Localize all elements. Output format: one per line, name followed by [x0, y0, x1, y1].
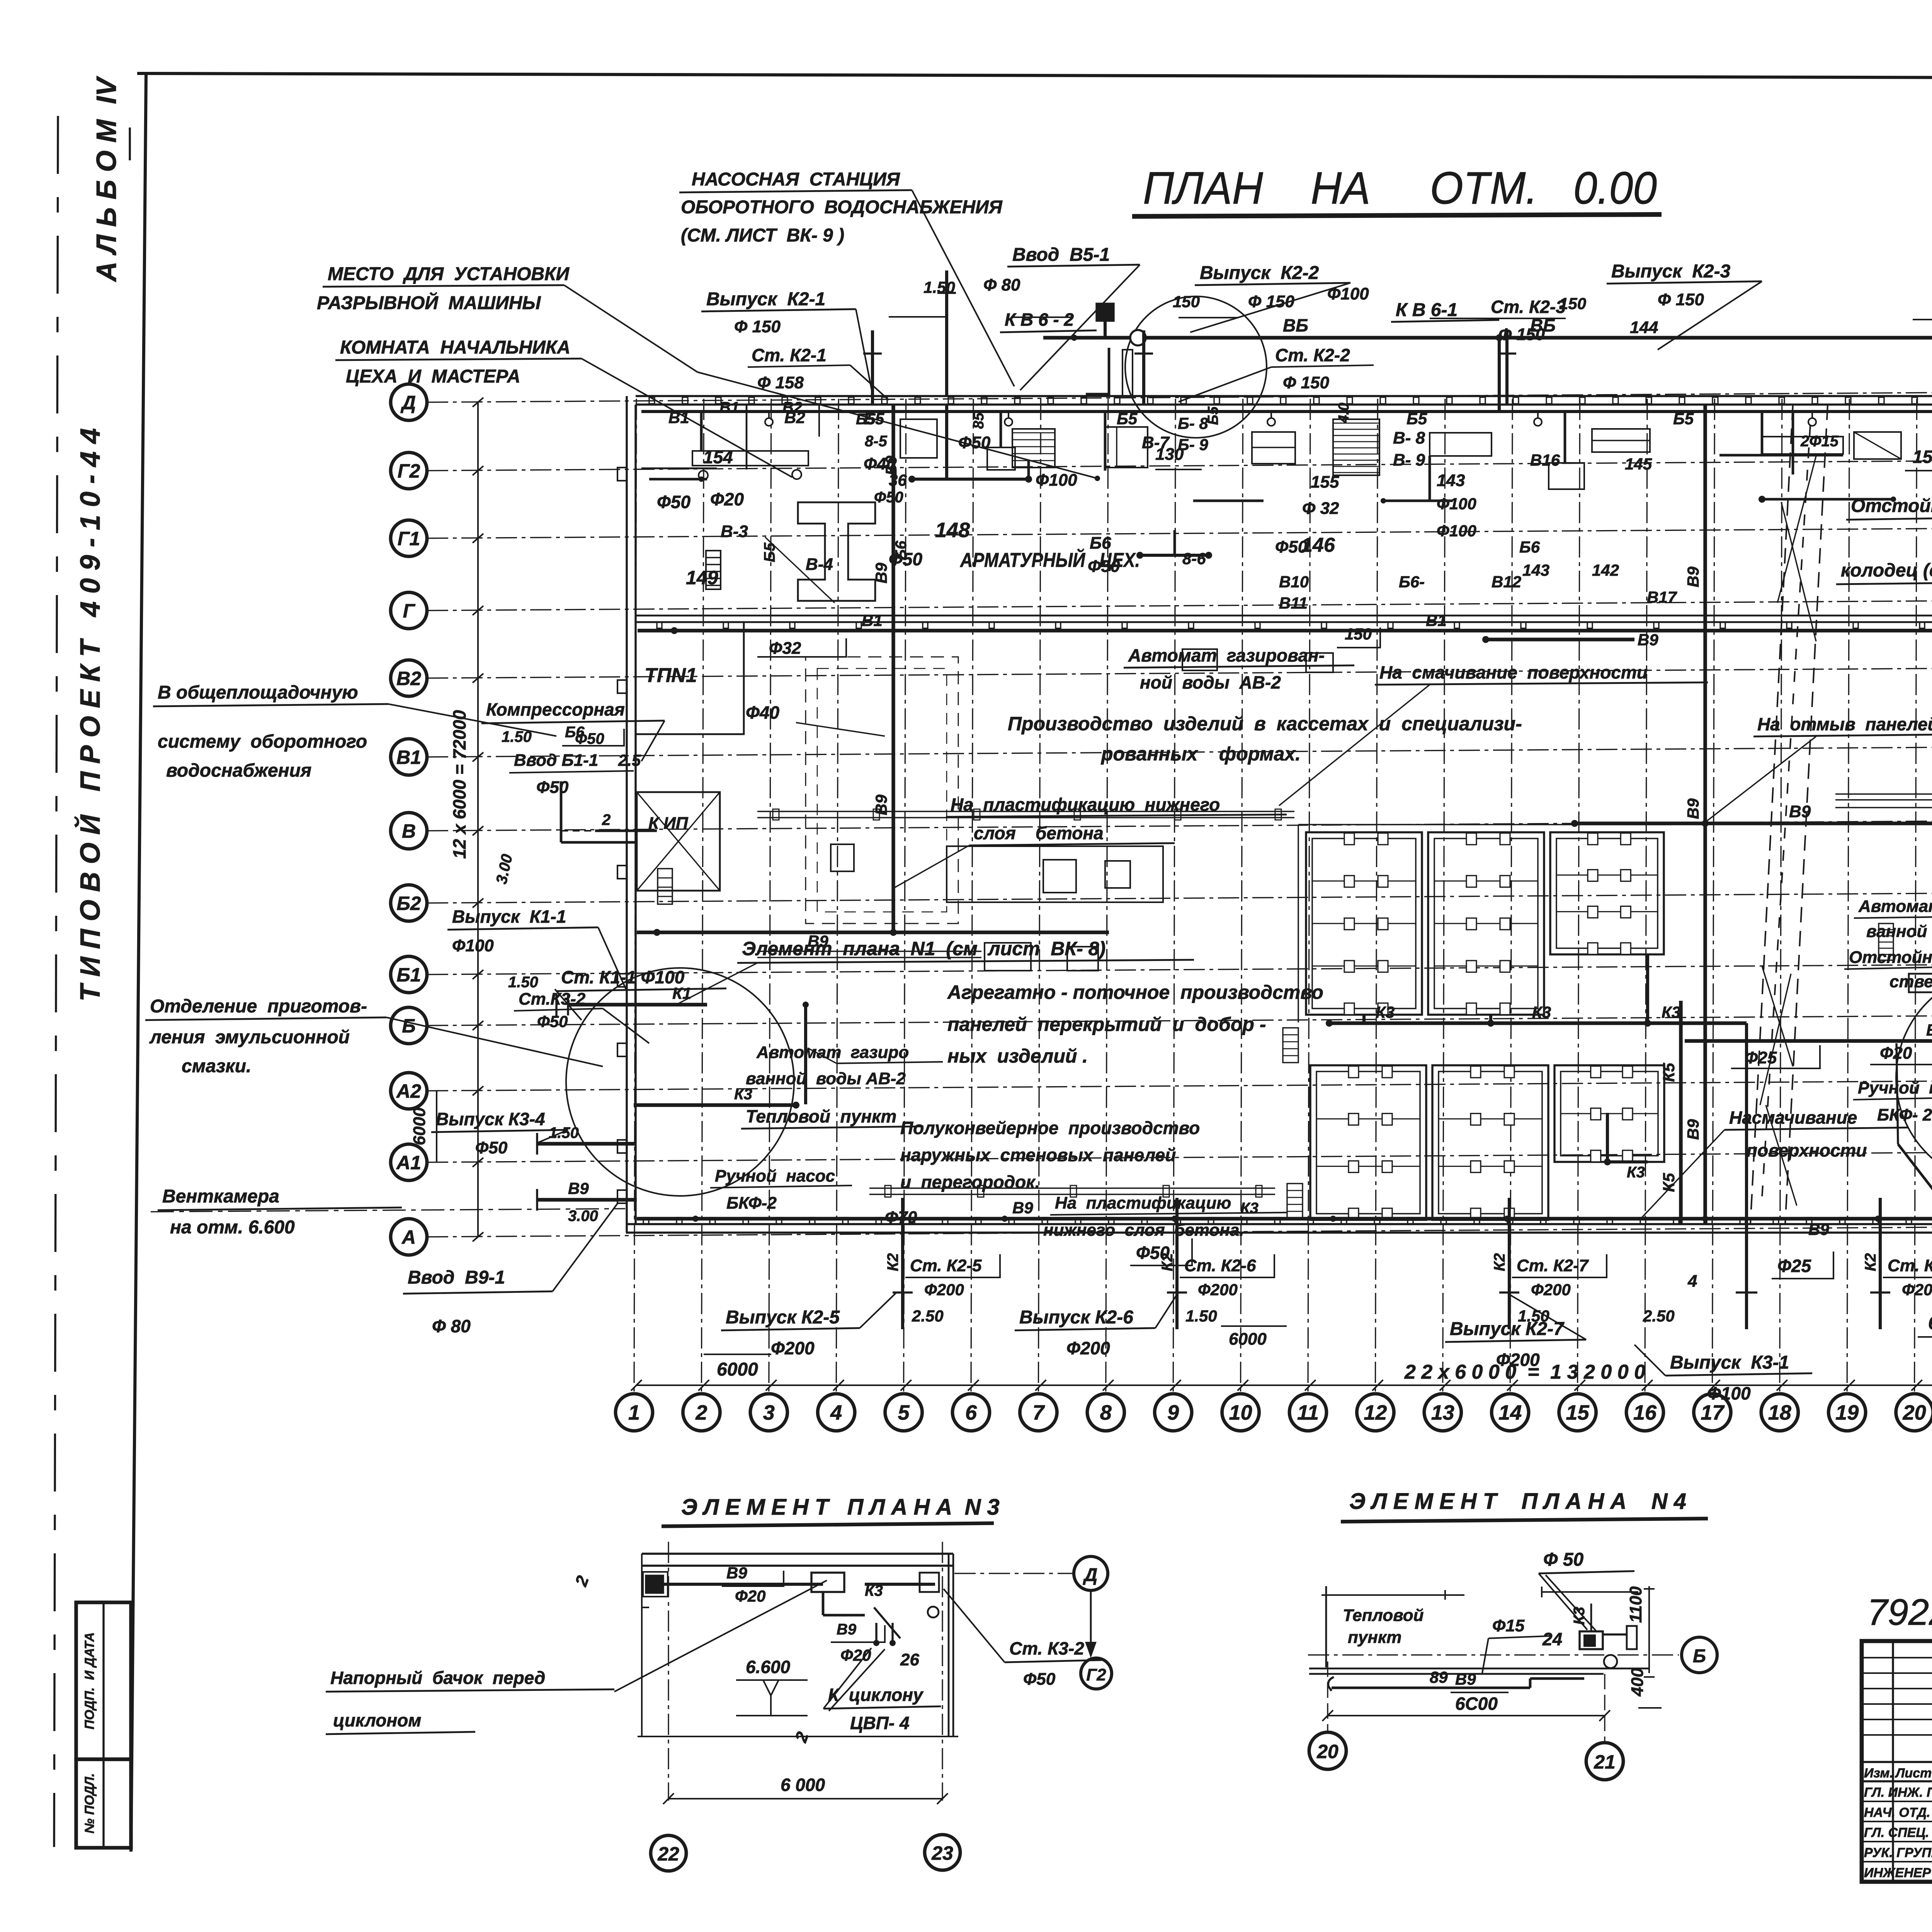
- room КИП: [637, 792, 720, 891]
- svg-text:В11: В11: [1279, 594, 1308, 612]
- svg-text:Ф 150: Ф 150: [1283, 373, 1330, 392]
- svg-text:В9: В9: [1455, 1670, 1476, 1688]
- svg-text:Б2: Б2: [396, 893, 421, 914]
- stairs right (отстойник): [1879, 923, 1893, 960]
- svg-text:8: 8: [1100, 1401, 1112, 1424]
- pipe В9 (right horizontal): [1575, 821, 1932, 825]
- column dimension line 22x6000=132000: [636, 1384, 1932, 1386]
- svg-text:нижнего слоя бетона.: нижнего слоя бетона.: [1043, 1221, 1244, 1240]
- svg-text:ных изделий .: ных изделий .: [947, 1045, 1088, 1067]
- выпуск risers at top wall: [871, 330, 874, 405]
- bracket for label 150: [1337, 628, 1380, 648]
- svg-text:К В 6-1: К В 6-1: [1396, 300, 1458, 320]
- svg-text:Б6: Б6: [1519, 538, 1540, 556]
- svg-text:Автомат газиро: Автомат газиро: [756, 1043, 909, 1062]
- cassette drain stubs: [1362, 1015, 1366, 1023]
- svg-text:Т И П О В О Й П Р О Е К Т: Т И П О В О Й П Р О Е К Т 4 0 9 - 1 0 - …: [74, 428, 106, 1002]
- pipe В9 stub near В1 line: [1486, 638, 1634, 641]
- title block verticals (left part): [1892, 1641, 1894, 1882]
- svg-text:Ф50: Ф50: [575, 730, 604, 747]
- svg-text:85: 85: [971, 412, 987, 429]
- title block top small rows: [1862, 1657, 1932, 1658]
- svg-text:Выпуск К3-4: Выпуск К3-4: [436, 1109, 545, 1129]
- svg-text:Ф 80: Ф 80: [983, 276, 1020, 294]
- svg-text:Агрегатно - поточное производ: Агрегатно - поточное производство: [947, 981, 1323, 1003]
- svg-text:На смачивание поверхности: На смачивание поверхности: [1379, 662, 1648, 682]
- detail N3 axis Д bubble: [1074, 1556, 1108, 1590]
- detail N3 bubbles 22 23: [651, 1835, 686, 1871]
- svg-text:Выпуск К1-1: Выпуск К1-1: [452, 906, 566, 927]
- svg-text:16: 16: [1633, 1401, 1657, 1424]
- svg-text:В-4: В-4: [806, 555, 833, 574]
- svg-text:6.600: 6.600: [746, 1657, 791, 1677]
- machine cluster extras top band: [1000, 412, 1002, 447]
- pipe В9/К3 along bottom wall: [637, 1217, 1932, 1220]
- detail N3 dimension 6000: [668, 1798, 942, 1799]
- pipe Б5 branch verticals in rebar shop: [945, 405, 948, 479]
- svg-text:Б6: Б6: [893, 541, 910, 560]
- svg-text:поверхности: поверхности: [1747, 1140, 1867, 1160]
- row dimension line 12x6000=72000: [477, 402, 479, 1237]
- svg-text:ВБ: ВБ: [1283, 315, 1308, 335]
- detail N4 К3 node: [1580, 1631, 1603, 1649]
- svg-text:В9: В9: [1808, 1220, 1829, 1238]
- svg-text:Ф200: Ф200: [924, 1281, 964, 1299]
- svg-text:Ф15: Ф15: [1492, 1616, 1525, 1635]
- svg-text:В12: В12: [1492, 573, 1521, 591]
- svg-text:К3: К3: [1571, 1607, 1588, 1625]
- svg-text:Ф50: Ф50: [536, 778, 569, 797]
- drawing frame left line: [131, 73, 146, 1852]
- svg-text:3: 3: [763, 1401, 775, 1424]
- office room partition top-left: [746, 405, 748, 469]
- svg-text:Г2: Г2: [398, 460, 420, 482]
- svg-text:1.50: 1.50: [549, 1124, 579, 1141]
- pipe В9 (left horizontal): [637, 930, 1109, 934]
- svg-text:и перегородок.: и перегородок.: [900, 1172, 1040, 1192]
- svg-text:6000: 6000: [1229, 1330, 1267, 1349]
- svg-text:13: 13: [1431, 1401, 1454, 1424]
- svg-text:7: 7: [1032, 1401, 1045, 1424]
- svg-text:ственных сточных вод: ственных сточных вод: [1889, 972, 1932, 991]
- svg-text:19: 19: [1835, 1401, 1859, 1424]
- svg-text:Ст. К2-7: Ст. К2-7: [1517, 1256, 1589, 1275]
- svg-text:К2: К2: [1862, 1253, 1879, 1271]
- svg-text:В1: В1: [1426, 611, 1447, 629]
- svg-text:Напорный бачок перед: Напорный бачок перед: [330, 1668, 545, 1688]
- callout circle: element plan N4 (right): [1896, 971, 1932, 1185]
- row grid dash-dot lines: [427, 391, 1932, 402]
- svg-text:ления эмульсионной: ления эмульсионной: [149, 1027, 350, 1048]
- detail N3 pipes: [646, 1576, 663, 1593]
- svg-text:Выпуск К2-2: Выпуск К2-2: [1200, 263, 1319, 283]
- pipe В9 Ф25 (right): [1685, 1039, 1932, 1043]
- svg-text:К3: К3: [1532, 1003, 1551, 1021]
- svg-text:Ф50: Ф50: [537, 1012, 568, 1031]
- room ТПН1: [636, 622, 744, 734]
- svg-text:10: 10: [1229, 1401, 1252, 1424]
- svg-text:145: 145: [1625, 455, 1652, 473]
- svg-text:Ст. К2-6: Ст. К2-6: [1184, 1256, 1256, 1275]
- svg-text:2.5: 2.5: [618, 751, 641, 769]
- svg-text:Ст. К3-2: Ст. К3-2: [1009, 1638, 1084, 1658]
- svg-text:КОМНАТА НАЧАЛЬНИКА: КОМНАТА НАЧАЛЬНИКА: [340, 337, 570, 358]
- riser К3 to выпуск К3-1: [1745, 1023, 1748, 1224]
- detail N3 axis Г2 bubble and arrow: [1090, 1590, 1092, 1656]
- svg-text:7922: 7922: [1867, 1592, 1932, 1633]
- svg-text:В16: В16: [1530, 451, 1560, 469]
- svg-text:2: 2: [602, 811, 611, 828]
- svg-text:Б1: Б1: [396, 964, 421, 986]
- svg-text:Б9: Б9: [883, 456, 900, 475]
- svg-text:Ф25: Ф25: [1745, 1048, 1777, 1067]
- svg-text:Ст.К3-2: Ст.К3-2: [519, 990, 586, 1009]
- svg-text:3.00: 3.00: [568, 1207, 598, 1225]
- svg-text:В9: В9: [726, 1564, 747, 1582]
- detail N4 тепловой пункт box: [1325, 1586, 1327, 1667]
- detail N4 pipe В9: [1328, 1677, 1334, 1691]
- svg-text:На отмыв панелей: На отмыв панелей: [1757, 714, 1932, 734]
- detail N4 axis Б line and bubble: [1308, 1654, 1679, 1655]
- svg-text:В: В: [402, 820, 416, 842]
- выпуск К3-4 stub: [537, 1142, 636, 1145]
- svg-text:Ст. К2-1: Ст. К2-1: [752, 345, 827, 365]
- svg-text:Г2: Г2: [1086, 1665, 1106, 1684]
- row bubbles: [391, 384, 427, 420]
- svg-text:ПЛАН НА ОТМ. 0.00: ПЛАН НА ОТМ. 0.00: [1143, 163, 1657, 214]
- svg-text:Ф100: Ф100: [1437, 522, 1476, 540]
- svg-text:водоснабжения: водоснабжения: [166, 760, 311, 781]
- svg-text:Ст. К1-1 Ф100: Ст. К1-1 Ф100: [561, 967, 685, 987]
- svg-text:Ф50: Ф50: [475, 1138, 508, 1157]
- svg-text:6C00: 6C00: [1455, 1694, 1498, 1714]
- title block signature rows: [1862, 1801, 1932, 1802]
- svg-text:6000: 6000: [1928, 1313, 1932, 1333]
- machine cluster extras middle band: [985, 943, 1031, 971]
- svg-text:Выпуск К2-3: Выпуск К2-3: [1611, 261, 1731, 282]
- svg-text:В1: В1: [719, 399, 739, 416]
- machine block пластификация: [947, 846, 1163, 902]
- svg-text:ванной воды АВ-2: ванной воды АВ-2: [1866, 922, 1932, 941]
- pipe Б5 under top wall: [641, 410, 1932, 413]
- svg-text:В10: В10: [1279, 573, 1309, 591]
- svg-text:4: 4: [1687, 1272, 1697, 1291]
- top wall pilasters: [649, 397, 655, 404]
- svg-text:ТПN1: ТПN1: [645, 664, 697, 687]
- svg-text:На пластификацию: На пластификацию: [1055, 1194, 1231, 1213]
- svg-text:В9: В9: [568, 1179, 589, 1197]
- sediment tank rect right: [1909, 974, 1932, 992]
- svg-text:Ф100: Ф100: [1707, 1383, 1751, 1403]
- svg-text:К3: К3: [734, 1086, 752, 1103]
- svg-text:В9: В9: [872, 794, 890, 815]
- title block outer frame: [1862, 1641, 1932, 1882]
- svg-text:Венткамера: Венткамера: [162, 1186, 279, 1207]
- detail N3 walls: [642, 1553, 953, 1554]
- svg-text:Д: Д: [400, 392, 416, 413]
- svg-text:26: 26: [900, 1650, 919, 1669]
- svg-text:БКФ-2: БКФ-2: [726, 1194, 777, 1213]
- svg-text:2.50: 2.50: [912, 1307, 944, 1325]
- svg-text:ГЛ. ИНЖ. ПР.: ГЛ. ИНЖ. ПР.: [1864, 1785, 1932, 1800]
- svg-text:А: А: [401, 1226, 416, 1248]
- svg-text:Б- 9: Б- 9: [1178, 435, 1208, 454]
- svg-text:23: 23: [931, 1842, 953, 1864]
- svg-text:11: 11: [1297, 1401, 1319, 1424]
- svg-text:пункт: пункт: [1348, 1628, 1401, 1647]
- svg-text:Ст. К2-2: Ст. К2-2: [1275, 345, 1350, 365]
- svg-text:В9: В9: [872, 563, 890, 583]
- svg-text:В общеплощадочную: В общеплощадочную: [158, 682, 358, 703]
- svg-text:РАЗРЫВНОЙ МАШИНЫ: РАЗРЫВНОЙ МАШИНЫ: [317, 292, 541, 313]
- svg-text:систему оборотного: систему оборотного: [158, 731, 367, 752]
- svg-text:Ф20: Ф20: [735, 1587, 766, 1605]
- svg-text:2.50: 2.50: [1643, 1307, 1675, 1325]
- svg-text:В9: В9: [1684, 566, 1702, 587]
- callout circle: element plan N1 (left): [566, 968, 794, 1196]
- machine: ladder symbol: [706, 551, 721, 589]
- svg-text:К В 6 - 2: К В 6 - 2: [1005, 310, 1074, 330]
- svg-text:20: 20: [1316, 1741, 1338, 1762]
- callout circle: node КВ6-2 (top middle): [1125, 296, 1267, 438]
- svg-text:Б5: Б5: [1673, 410, 1694, 428]
- riser В9 vertical (main right): [1703, 405, 1707, 1224]
- svg-text:Ф200: Ф200: [1496, 1350, 1540, 1370]
- svg-text:В9: В9: [1684, 1119, 1702, 1140]
- svg-text:К2: К2: [1491, 1253, 1508, 1271]
- svg-text:12: 12: [1364, 1401, 1387, 1424]
- svg-text:1: 1: [628, 1401, 640, 1424]
- svg-text:В2: В2: [396, 668, 421, 689]
- pipe ВБ (top horizontal): [1074, 336, 1932, 339]
- pipe Б6 segments mid rebar shop: [1140, 554, 1209, 557]
- svg-text:Элемент плана N1 (см лист: Элемент плана N1 (см лист ВК- 8): [742, 938, 1105, 959]
- svg-text:1.50: 1.50: [1518, 1307, 1549, 1325]
- svg-text:на отм. 6.600: на отм. 6.600: [170, 1217, 295, 1238]
- svg-text:Автомат газирован-: Автомат газирован-: [1128, 645, 1325, 665]
- svg-text:В9: В9: [1789, 802, 1811, 821]
- svg-text:400: 400: [1628, 1668, 1647, 1697]
- dashed zone Элемент плана N1: [806, 657, 958, 923]
- svg-text:Выпуск К3-1: Выпуск К3-1: [1670, 1352, 1789, 1373]
- ввод В9-1 stub: [537, 1198, 637, 1201]
- svg-text:ОБОРОТНОГО ВОДОСНАБЖЕНИЯ: ОБОРОТНОГО ВОДОСНАБЖЕНИЯ: [681, 197, 1003, 218]
- svg-text:Ф32: Ф32: [769, 639, 801, 658]
- svg-text:Ф200: Ф200: [1198, 1281, 1238, 1299]
- svg-text:слоя бетона: слоя бетона: [974, 823, 1104, 843]
- svg-text:2Ф15: 2Ф15: [1800, 433, 1839, 450]
- К2 risers through bottom wall: [901, 1198, 904, 1329]
- pipe К3 (cassette row): [1329, 1021, 1747, 1025]
- svg-text:150: 150: [1559, 294, 1586, 313]
- svg-text:Выпуск К2-1: Выпуск К2-1: [706, 289, 825, 310]
- svg-text:Ф 32: Ф 32: [1302, 499, 1339, 518]
- svg-text:БКФ- 2: БКФ- 2: [1877, 1105, 1932, 1124]
- cassette group lower: [1310, 1065, 1426, 1220]
- svg-text:Ввод Б1-1: Ввод Б1-1: [514, 751, 598, 770]
- bottom wall pilasters: [643, 1218, 649, 1224]
- svg-text:Ввод В9-1: Ввод В9-1: [408, 1267, 505, 1288]
- node КВ6-2: [1097, 304, 1114, 321]
- svg-text:На пластификацию нижнего: На пластификацию нижнего: [951, 794, 1220, 815]
- dimension 6000 (cols 2-3): [704, 1354, 771, 1355]
- svg-text:144: 144: [1630, 318, 1658, 337]
- svg-text:Ввод В5-1: Ввод В5-1: [1012, 245, 1110, 265]
- svg-text:Б6-: Б6-: [1399, 573, 1425, 591]
- svg-text:Ф 150: Ф 150: [734, 317, 781, 336]
- svg-text:Ф20: Ф20: [710, 489, 744, 509]
- svg-text:Ф100: Ф100: [1327, 284, 1369, 303]
- svg-text:Полуконвейерное производство: Полуконвейерное производство: [900, 1118, 1200, 1138]
- svg-text:В1: В1: [396, 747, 421, 768]
- drawing frame top line: [137, 73, 1932, 79]
- svg-text:14: 14: [1498, 1401, 1522, 1424]
- svg-text:наружных стеновых панелей: наружных стеновых панелей: [900, 1145, 1176, 1165]
- svg-text:1.50: 1.50: [923, 278, 955, 296]
- svg-text:В9: В9: [1926, 1021, 1932, 1039]
- svg-text:Б5: Б5: [1406, 410, 1427, 428]
- svg-text:ванной воды АВ-2: ванной воды АВ-2: [746, 1069, 906, 1088]
- svg-text:18: 18: [1768, 1401, 1791, 1424]
- svg-text:143: 143: [1522, 561, 1549, 579]
- svg-text:В17: В17: [1647, 588, 1677, 606]
- svg-text:ЦЕХА И МАСТЕРА: ЦЕХА И МАСТЕРА: [346, 366, 520, 387]
- svg-text:А1: А1: [396, 1152, 421, 1173]
- svg-text:89: 89: [1430, 1668, 1448, 1686]
- svg-text:9: 9: [1167, 1401, 1179, 1424]
- svg-text:Э Л Е М Е Н Т П Л А Н А: Э Л Е М Е Н Т П Л А Н А N 4: [1349, 1489, 1686, 1514]
- svg-text:Производство изделий в касс: Производство изделий в кассетах и специа…: [1008, 713, 1522, 735]
- svg-text:21: 21: [1594, 1751, 1616, 1773]
- svg-text:1100: 1100: [1626, 1586, 1645, 1623]
- svg-text:Лист: Лист: [1895, 1766, 1932, 1781]
- svg-text:22: 22: [657, 1843, 679, 1865]
- svg-text:3.00: 3.00: [493, 853, 516, 886]
- svg-text:Автомат газиро-: Автомат газиро-: [1858, 897, 1932, 916]
- svg-text:циклоном: циклоном: [333, 1710, 421, 1730]
- detail N3 axis lines: [668, 1542, 669, 1801]
- svg-text:20: 20: [1903, 1401, 1926, 1424]
- svg-text:Ф50: Ф50: [1136, 1243, 1170, 1263]
- svg-text:Ф50: Ф50: [958, 433, 991, 452]
- svg-text:Отстойник производ-: Отстойник производ-: [1849, 948, 1932, 967]
- svg-text:В9: В9: [1684, 798, 1702, 819]
- small pipe stub row В: [595, 830, 657, 832]
- svg-text:Ф50: Ф50: [874, 489, 903, 506]
- svg-text:(СМ. ЛИСТ ВК- 9 ): (СМ. ЛИСТ ВК- 9 ): [681, 225, 844, 246]
- svg-text:Б5: Б5: [1117, 410, 1138, 428]
- pipe К1 (left): [568, 1003, 707, 1006]
- svg-text:В2: В2: [782, 399, 802, 416]
- svg-text:2: 2: [695, 1401, 707, 1424]
- svg-text:Ф200: Ф200: [771, 1338, 815, 1358]
- svg-text:Ф 50: Ф 50: [1543, 1549, 1584, 1570]
- svg-text:ГЛ. СПЕЦ.: ГЛ. СПЕЦ.: [1864, 1825, 1929, 1840]
- svg-text:Ф 150: Ф 150: [1658, 290, 1704, 309]
- machine blocks top-middle: [900, 419, 937, 458]
- svg-text:Б- 8: Б- 8: [1178, 414, 1208, 432]
- svg-text:150: 150: [1173, 293, 1200, 311]
- svg-text:154: 154: [703, 447, 733, 467]
- svg-text:24: 24: [1542, 1629, 1562, 1649]
- cassette group upper: [1306, 832, 1422, 1015]
- svg-text:В-3: В-3: [721, 522, 748, 541]
- svg-text:рованных формах.: рованных формах.: [1100, 743, 1301, 765]
- svg-text:колодец (см.лист ВК-11): колодец (см.лист ВК-11): [1841, 560, 1932, 581]
- svg-text:Б5: Б5: [761, 543, 778, 562]
- svg-text:4.0: 4.0: [1336, 403, 1352, 423]
- svg-text:8-6: 8-6: [1182, 549, 1206, 568]
- conveyor rails bottom band: [869, 1187, 1275, 1189]
- svg-text:Ф100: Ф100: [1437, 495, 1476, 513]
- svg-text:Б: Б: [1693, 1646, 1706, 1667]
- svg-text:6: 6: [965, 1401, 977, 1424]
- svg-text:К циклону: К циклону: [828, 1685, 924, 1705]
- svg-text:2: 2: [571, 1573, 593, 1589]
- svg-text:17: 17: [1701, 1401, 1725, 1424]
- svg-text:6 000: 6 000: [781, 1775, 825, 1795]
- svg-text:Компрессорная: Компрессорная: [486, 699, 625, 719]
- svg-text:АРМАТУРНЫЙ ЦЕХ.: АРМАТУРНЫЙ ЦЕХ.: [959, 548, 1140, 571]
- svg-text:148: 148: [935, 519, 970, 542]
- svg-text:К3: К3: [1662, 1003, 1680, 1021]
- svg-text:панелей перекрытий и добор: панелей перекрытий и добор -: [947, 1014, 1266, 1035]
- svg-text:Ф200: Ф200: [1902, 1281, 1932, 1299]
- fold diagonals near expansion joint: [1762, 966, 1793, 1066]
- svg-text:6000: 6000: [717, 1359, 758, 1380]
- svg-text:В9: В9: [1638, 631, 1658, 649]
- svg-text:РУК. ГРУП.: РУК. ГРУП.: [1864, 1845, 1932, 1860]
- svg-text:К5: К5: [1660, 1063, 1678, 1082]
- svg-text:К3: К3: [1627, 1164, 1645, 1181]
- valve symbols on Б5 line: [765, 418, 773, 426]
- bottom-left stamp box: № ПОДЛ.: [76, 1759, 131, 1848]
- svg-text:Тепловой пункт: Тепловой пункт: [746, 1106, 896, 1126]
- svg-text:В- 9: В- 9: [1393, 451, 1425, 469]
- riser К5: [1679, 1001, 1682, 1224]
- svg-text:6000: 6000: [410, 1107, 429, 1145]
- top exterior wall: [636, 395, 1932, 397]
- svg-text:Б: Б: [402, 1015, 415, 1037]
- svg-text:А2: А2: [396, 1080, 421, 1102]
- svg-text:146: 146: [1301, 534, 1335, 556]
- svg-text:К3: К3: [1376, 1003, 1395, 1021]
- bottom exterior wall: [626, 1223, 1932, 1225]
- svg-text:Ф 80: Ф 80: [432, 1316, 471, 1336]
- svg-text:Г: Г: [403, 600, 416, 622]
- svg-text:смазки.: смазки.: [182, 1056, 251, 1077]
- svg-text:1.50: 1.50: [502, 728, 532, 745]
- svg-text:ЦВП- 4: ЦВП- 4: [850, 1713, 910, 1733]
- svg-text:Ф200: Ф200: [1066, 1338, 1110, 1358]
- svg-text:5: 5: [898, 1401, 910, 1424]
- svg-text:Ф40: Ф40: [746, 702, 779, 723]
- svg-text:Ф200: Ф200: [1531, 1281, 1571, 1299]
- column bubbles 1..23: [616, 1394, 653, 1431]
- detail N4 dimension lines: [1542, 1591, 1638, 1593]
- left wall bumps: [617, 468, 627, 481]
- svg-text:Ф70: Ф70: [885, 1208, 917, 1227]
- title block header row: [1862, 1761, 1932, 1763]
- svg-text:15: 15: [1566, 1401, 1590, 1424]
- dimension 6000 (cols 20-21): [1918, 1336, 1932, 1338]
- svg-text:Ф50: Ф50: [1023, 1670, 1056, 1689]
- svg-text:142: 142: [1592, 561, 1619, 579]
- svg-text:Б5: Б5: [856, 411, 876, 428]
- svg-text:Ст. К2-3: Ст. К2-3: [1491, 297, 1566, 317]
- svg-text:Изм.: Изм.: [1864, 1766, 1893, 1781]
- diagonal pipe БКФ-2: [1898, 1144, 1932, 1226]
